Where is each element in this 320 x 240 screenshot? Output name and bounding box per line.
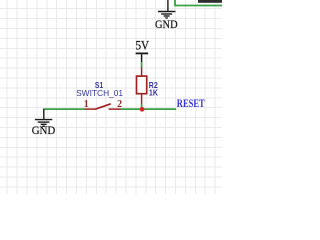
svg-text:GND: GND xyxy=(32,123,56,137)
junction RESET node xyxy=(140,107,145,112)
switch S1 xyxy=(85,104,121,109)
svg-text:SWITCH_01: SWITCH_01 xyxy=(76,88,123,98)
wire R2 to RESET node xyxy=(141,104,143,109)
svg-text:1K: 1K xyxy=(149,88,159,98)
svg-text:1: 1 xyxy=(84,99,89,110)
resistor R2 xyxy=(137,67,147,104)
svg-text:RESET: RESET xyxy=(177,96,205,110)
svg-text:5V: 5V xyxy=(136,38,150,52)
ground symbol (top right) xyxy=(158,0,176,18)
svg-text:GND: GND xyxy=(155,17,178,31)
ground symbol (bottom left) xyxy=(35,109,52,126)
wire GND net top-right (vertical then right to edge) xyxy=(175,0,222,6)
wire 5V to R2 xyxy=(141,62,143,67)
power 5V symbol (T bar and stem) xyxy=(136,53,149,62)
wire GND to S1 pin 1 xyxy=(43,108,85,110)
wire S1 pin 2 to RESET label xyxy=(121,108,177,110)
IC U1 (box cut off at top-right corner) xyxy=(198,0,222,3)
